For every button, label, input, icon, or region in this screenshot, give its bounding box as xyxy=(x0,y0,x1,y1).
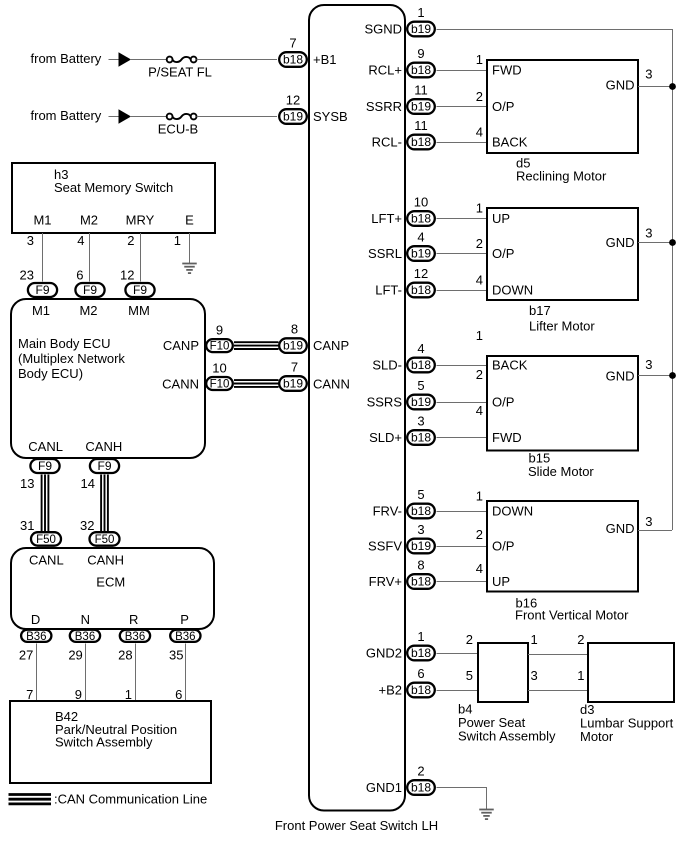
wire N to B42 xyxy=(85,644,87,702)
svg-text:3: 3 xyxy=(531,668,538,683)
component d3 Lumbar Support Motor xyxy=(588,643,674,702)
svg-text:MRY: MRY xyxy=(126,213,155,228)
svg-text:3: 3 xyxy=(645,226,652,241)
svg-text:b19: b19 xyxy=(283,377,303,391)
svg-text:6: 6 xyxy=(76,268,83,283)
svg-text:M2: M2 xyxy=(80,213,98,228)
connector F9 (CANH) xyxy=(90,459,119,473)
connector pin b18 GND1 (pin 2) xyxy=(407,764,435,795)
connector pin b18 LFT+ (pin 10) xyxy=(407,195,435,226)
wire SSRS to O/P xyxy=(437,402,488,404)
svg-text:1: 1 xyxy=(476,52,483,67)
ground rail (right) xyxy=(672,29,674,530)
svg-text:b19: b19 xyxy=(411,539,431,553)
svg-text:Lifter Motor: Lifter Motor xyxy=(529,319,595,334)
svg-text:O/P: O/P xyxy=(492,246,514,261)
svg-text:SLD-: SLD- xyxy=(372,358,402,373)
wire b4 pin3 to d3 pin1 xyxy=(528,690,588,692)
svg-text:1: 1 xyxy=(476,201,483,216)
connector pin b19 CANP (pin 8) xyxy=(279,322,307,353)
svg-text:B36: B36 xyxy=(175,631,195,643)
CAN communication line CANP xyxy=(234,342,279,349)
wire P to B42 xyxy=(185,644,187,702)
CAN communication line CANH xyxy=(101,475,108,532)
svg-text:GND: GND xyxy=(606,369,635,384)
connector pin b19 SSRS (pin 5) xyxy=(407,378,435,409)
svg-text:SLD+: SLD+ xyxy=(369,430,402,445)
svg-text:9: 9 xyxy=(417,46,424,61)
svg-text:13: 13 xyxy=(20,476,34,491)
svg-text:Motor: Motor xyxy=(580,729,614,744)
wire RCL- to BACK xyxy=(437,142,488,144)
svg-text:R: R xyxy=(129,612,138,627)
connector pin b18 SLD- (pin 4) xyxy=(407,341,435,372)
connector pin b18 FRV- (pin 5) xyxy=(407,487,435,518)
svg-text:4: 4 xyxy=(476,403,483,418)
svg-text:b18: b18 xyxy=(411,646,431,660)
svg-text:3: 3 xyxy=(645,67,652,82)
svg-text:2: 2 xyxy=(466,632,473,647)
component b16 Front Vertical Motor xyxy=(487,501,638,592)
svg-text:7: 7 xyxy=(289,36,296,51)
svg-text:b19: b19 xyxy=(283,110,303,124)
svg-text:SSRL: SSRL xyxy=(368,246,402,261)
svg-text::CAN Communication Line: :CAN Communication Line xyxy=(54,792,207,807)
svg-text:E: E xyxy=(185,213,194,228)
svg-text:4: 4 xyxy=(476,561,483,576)
svg-text:from Battery: from Battery xyxy=(31,108,102,123)
fuse P/SEAT FL xyxy=(109,52,278,79)
wire SSFV to O/P xyxy=(437,546,488,548)
svg-text:BACK: BACK xyxy=(492,358,528,373)
wire MRY to F9 xyxy=(140,233,142,282)
svg-text:RCL-: RCL- xyxy=(372,135,402,150)
svg-text:5: 5 xyxy=(417,487,424,502)
svg-text:b18: b18 xyxy=(411,431,431,445)
component h3 Seat Memory Switch xyxy=(12,163,215,233)
connector F9 (CANL) xyxy=(30,459,59,473)
ground (Seat Memory Switch E) xyxy=(182,264,197,274)
wire +B2 to b4 pin5 xyxy=(437,690,479,692)
connector pin b18 +B2 (pin 6) xyxy=(407,666,435,697)
svg-text:Slide Motor: Slide Motor xyxy=(528,464,594,479)
svg-text:F9: F9 xyxy=(97,459,111,473)
svg-text:P: P xyxy=(180,612,189,627)
connector F10 CANN (pin 10) xyxy=(206,360,233,390)
svg-text:F50: F50 xyxy=(95,534,115,546)
connector pin b19 SSRR (pin 11) xyxy=(407,83,435,114)
svg-text:1: 1 xyxy=(417,629,424,644)
svg-text:SGND: SGND xyxy=(364,22,402,37)
wire D to B42 xyxy=(36,644,38,702)
svg-text:31: 31 xyxy=(20,518,34,533)
svg-text:F9: F9 xyxy=(35,283,49,297)
wire GND b16 to rail xyxy=(638,530,672,532)
svg-text:GND2: GND2 xyxy=(366,646,402,661)
svg-text:1: 1 xyxy=(125,687,132,702)
connector pin b18 RCL- (pin 11) xyxy=(407,118,435,149)
svg-text:1: 1 xyxy=(531,632,538,647)
svg-text:12: 12 xyxy=(120,268,134,283)
svg-text:F10: F10 xyxy=(210,379,230,391)
junction (rail / d5 GND) xyxy=(669,83,676,90)
svg-text:N: N xyxy=(81,612,90,627)
svg-text:10: 10 xyxy=(212,360,226,375)
svg-text:UP: UP xyxy=(492,211,510,226)
component b15 Slide Motor xyxy=(487,356,638,451)
svg-text:DOWN: DOWN xyxy=(492,283,533,298)
connector F50 (CANL) xyxy=(31,532,61,546)
connector B36 (R) xyxy=(120,630,150,643)
svg-text:F9: F9 xyxy=(38,459,52,473)
svg-text:9: 9 xyxy=(75,687,82,702)
wire GND d5 to rail xyxy=(638,86,672,88)
svg-text:GND: GND xyxy=(606,78,635,93)
connector pin b18 SLD+ (pin 3) xyxy=(407,414,435,445)
connector pin b18 +B1 (pin 7) xyxy=(279,36,307,67)
wire FRV- to DOWN xyxy=(437,511,488,513)
svg-text:b18: b18 xyxy=(411,781,431,795)
svg-text:LFT+: LFT+ xyxy=(371,211,402,226)
svg-text:2: 2 xyxy=(417,764,424,779)
svg-text:GND: GND xyxy=(606,521,635,536)
wire M1 to F9 xyxy=(42,233,44,282)
connector pin b18 RCL+ (pin 9) xyxy=(407,46,435,77)
svg-text:RCL+: RCL+ xyxy=(368,63,402,78)
svg-text:GND: GND xyxy=(606,235,635,250)
component b4 Power Seat Switch Assembly xyxy=(478,643,528,702)
svg-text:7: 7 xyxy=(291,360,298,375)
svg-text:b18: b18 xyxy=(283,53,303,67)
wire R to B42 xyxy=(135,644,137,702)
svg-text:3: 3 xyxy=(645,514,652,529)
svg-text:2: 2 xyxy=(127,233,134,248)
svg-text:b19: b19 xyxy=(411,395,431,409)
component B42 Park/Neutral Position Switch Assembly xyxy=(10,701,211,783)
component b17 Lifter Motor xyxy=(487,208,638,300)
connector F9 (M1) xyxy=(28,283,57,297)
svg-text:M1: M1 xyxy=(33,213,51,228)
wire SSRL to O/P xyxy=(437,253,488,255)
svg-text:+B1: +B1 xyxy=(313,52,337,67)
connector F50 (CANH) xyxy=(90,532,120,546)
svg-text:1: 1 xyxy=(476,328,483,343)
svg-text:8: 8 xyxy=(417,558,424,573)
connector B36 (D) xyxy=(21,630,51,643)
svg-text:2: 2 xyxy=(577,632,584,647)
svg-text:b18: b18 xyxy=(411,683,431,697)
svg-text:2: 2 xyxy=(476,236,483,251)
svg-text:Main Body ECU: Main Body ECU xyxy=(18,336,110,351)
svg-text:UP: UP xyxy=(492,574,510,589)
svg-text:2: 2 xyxy=(476,89,483,104)
connector F10 CANP (pin 9) xyxy=(206,323,233,353)
svg-text:(Multiplex Network: (Multiplex Network xyxy=(18,351,125,366)
fuse ECU-B xyxy=(109,109,278,136)
wire SGND to ground rail xyxy=(437,29,673,31)
ECU box: Front Power Seat Switch LH xyxy=(309,5,405,811)
svg-text:GND1: GND1 xyxy=(366,780,402,795)
wire GND1 xyxy=(437,787,488,789)
wire FRV+ to UP xyxy=(437,581,488,583)
wire M2 to F9 xyxy=(89,233,91,282)
svg-text:FWD: FWD xyxy=(492,63,522,78)
svg-text:M1: M1 xyxy=(32,303,50,318)
wire E to ground xyxy=(189,233,191,263)
svg-text:10: 10 xyxy=(414,195,428,210)
svg-text:O/P: O/P xyxy=(492,395,514,410)
wire GND b17 to rail xyxy=(638,242,672,244)
svg-text:b18: b18 xyxy=(411,212,431,226)
svg-text:F10: F10 xyxy=(210,341,230,353)
wire SLD- to BACK xyxy=(437,365,488,367)
svg-text:FWD: FWD xyxy=(492,430,522,445)
svg-text:3: 3 xyxy=(417,414,424,429)
svg-text:SSRS: SSRS xyxy=(367,395,403,410)
svg-text:O/P: O/P xyxy=(492,539,514,554)
legend CAN communication line symbol xyxy=(9,795,52,804)
svg-text:12: 12 xyxy=(286,93,300,108)
component d5 Reclining Motor xyxy=(487,60,638,153)
connector B36 (P) xyxy=(170,630,200,643)
svg-text:Seat Memory Switch: Seat Memory Switch xyxy=(54,180,173,195)
svg-text:14: 14 xyxy=(81,476,95,491)
svg-text:F9: F9 xyxy=(83,283,97,297)
connector F9 (MM) xyxy=(125,283,154,297)
svg-text:b18: b18 xyxy=(411,283,431,297)
svg-text:B36: B36 xyxy=(75,631,95,643)
svg-text:CANN: CANN xyxy=(313,377,350,392)
svg-text:MM: MM xyxy=(128,303,150,318)
wire RCL+ to FWD xyxy=(437,70,488,72)
svg-text:b19: b19 xyxy=(283,339,303,353)
component Main Body ECU xyxy=(11,299,205,458)
svg-text:5: 5 xyxy=(466,668,473,683)
connector pin b19 SSRL (pin 4) xyxy=(407,230,435,261)
connector pin b19 SSFV (pin 3) xyxy=(407,522,435,553)
svg-text:4: 4 xyxy=(476,273,483,288)
connector pin b19 SYSB (pin 12) xyxy=(279,93,307,124)
svg-text:9: 9 xyxy=(216,323,223,338)
svg-text:3: 3 xyxy=(27,233,34,248)
svg-text:3: 3 xyxy=(417,522,424,537)
svg-text:Switch Assembly: Switch Assembly xyxy=(55,735,153,750)
junction (rail / b15 GND) xyxy=(669,372,676,379)
svg-text:b18: b18 xyxy=(411,504,431,518)
svg-text:11: 11 xyxy=(414,83,428,98)
svg-text:SYSB: SYSB xyxy=(313,109,348,124)
connector pin b19 CANN (pin 7) xyxy=(279,360,307,391)
svg-text:32: 32 xyxy=(80,518,94,533)
svg-text:BACK: BACK xyxy=(492,135,528,150)
svg-text:SSFV: SSFV xyxy=(368,539,402,554)
svg-text:b18: b18 xyxy=(411,135,431,149)
svg-text:ECU-B: ECU-B xyxy=(158,122,198,137)
wire LFT- to DOWN xyxy=(437,290,488,292)
svg-text:4: 4 xyxy=(476,125,483,140)
svg-text:28: 28 xyxy=(118,648,132,663)
svg-text:FRV+: FRV+ xyxy=(369,574,402,589)
wire LFT+ to UP xyxy=(437,218,488,220)
svg-text:27: 27 xyxy=(19,648,33,663)
svg-text:Switch Assembly: Switch Assembly xyxy=(458,729,556,744)
svg-text:6: 6 xyxy=(417,666,424,681)
connector F9 (M2) xyxy=(75,283,104,297)
svg-text:29: 29 xyxy=(68,648,82,663)
svg-text:6: 6 xyxy=(175,687,182,702)
junction (rail / b17 GND) xyxy=(669,239,676,246)
svg-text:DOWN: DOWN xyxy=(492,504,533,519)
connector B36 (N) xyxy=(70,630,100,643)
CAN communication line CANN xyxy=(234,380,279,387)
svg-text:CANN: CANN xyxy=(162,377,199,392)
svg-text:F50: F50 xyxy=(36,534,56,546)
svg-text:B36: B36 xyxy=(125,631,145,643)
svg-text:35: 35 xyxy=(169,648,183,663)
svg-text:11: 11 xyxy=(414,118,428,133)
connector pin b18 FRV+ (pin 8) xyxy=(407,558,435,589)
svg-text:CANH: CANH xyxy=(85,439,122,454)
wire b4 pin1 to d3 pin2 xyxy=(528,654,588,656)
svg-text:Front Power Seat Switch LH: Front Power Seat Switch LH xyxy=(275,818,438,833)
svg-text:b18: b18 xyxy=(411,575,431,589)
svg-text:CANP: CANP xyxy=(313,338,349,353)
svg-text:12: 12 xyxy=(414,266,428,281)
svg-text:8: 8 xyxy=(291,322,298,337)
svg-text:b19: b19 xyxy=(411,247,431,261)
svg-text:+B2: +B2 xyxy=(379,683,403,698)
component ECM xyxy=(11,548,214,629)
svg-text:4: 4 xyxy=(417,230,424,245)
svg-text:CANL: CANL xyxy=(28,439,63,454)
svg-text:M2: M2 xyxy=(79,303,97,318)
svg-text:2: 2 xyxy=(476,367,483,382)
svg-text:Reclining Motor: Reclining Motor xyxy=(516,169,607,184)
svg-text:Body ECU): Body ECU) xyxy=(18,366,83,381)
svg-text:P/SEAT FL: P/SEAT FL xyxy=(148,65,212,80)
svg-text:b17: b17 xyxy=(529,303,551,318)
svg-text:ECM: ECM xyxy=(96,575,125,590)
svg-text:LFT-: LFT- xyxy=(375,283,402,298)
svg-text:4: 4 xyxy=(417,341,424,356)
svg-text:3: 3 xyxy=(645,357,652,372)
svg-text:O/P: O/P xyxy=(492,99,514,114)
connector pin b19 SGND (pin 1) xyxy=(407,5,435,36)
svg-text:1: 1 xyxy=(417,5,424,20)
svg-text:CANP: CANP xyxy=(163,338,199,353)
svg-text:SSRR: SSRR xyxy=(366,99,402,114)
connector pin b18 GND2 (pin 1) xyxy=(407,629,435,660)
CAN communication line CANL xyxy=(42,475,49,532)
svg-text:Front Vertical Motor: Front Vertical Motor xyxy=(515,608,629,623)
wire GND b15 to rail xyxy=(638,375,672,377)
svg-text:B36: B36 xyxy=(26,631,46,643)
svg-text:23: 23 xyxy=(20,268,34,283)
svg-text:7: 7 xyxy=(26,687,33,702)
wire GND2 to b4 pin2 xyxy=(437,653,479,655)
svg-text:b19: b19 xyxy=(411,22,431,36)
svg-text:F9: F9 xyxy=(133,283,147,297)
svg-text:CANL: CANL xyxy=(29,553,64,568)
connector pin b18 LFT- (pin 12) xyxy=(407,266,435,297)
svg-text:1: 1 xyxy=(476,489,483,504)
svg-text:4: 4 xyxy=(77,233,84,248)
svg-text:2: 2 xyxy=(476,527,483,542)
svg-text:1: 1 xyxy=(174,233,181,248)
svg-text:1: 1 xyxy=(577,668,584,683)
svg-text:b18: b18 xyxy=(411,358,431,372)
ground (GND1) xyxy=(479,810,494,820)
svg-text:FRV-: FRV- xyxy=(373,504,402,519)
svg-text:D: D xyxy=(31,612,40,627)
svg-text:b19: b19 xyxy=(411,100,431,114)
svg-text:from Battery: from Battery xyxy=(31,51,102,66)
svg-text:CANH: CANH xyxy=(87,553,124,568)
wire SSRR to O/P xyxy=(437,106,488,108)
svg-text:5: 5 xyxy=(417,378,424,393)
wire GND1 down xyxy=(486,788,488,810)
svg-text:b18: b18 xyxy=(411,63,431,77)
wire SLD+ to FWD xyxy=(437,437,488,439)
